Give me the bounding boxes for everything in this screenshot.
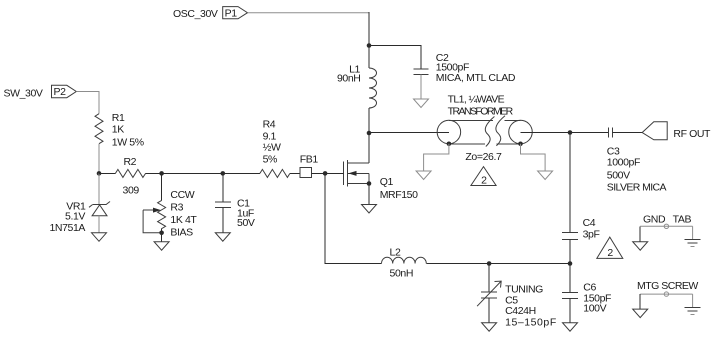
svg-text:5%: 5% bbox=[263, 153, 277, 165]
svg-text:R2: R2 bbox=[124, 156, 137, 168]
svg-text:TRANSFORMER: TRANSFORMER bbox=[448, 105, 514, 117]
capacitor C3 bbox=[609, 128, 613, 138]
svg-text:MRF150: MRF150 bbox=[380, 189, 418, 201]
ground bbox=[154, 242, 169, 251]
svg-text:1N751A: 1N751A bbox=[49, 222, 85, 234]
wire bbox=[222, 173, 224, 202]
label L2 bbox=[390, 247, 414, 280]
label C6 bbox=[583, 282, 611, 315]
svg-text:R3: R3 bbox=[170, 202, 183, 214]
wire bbox=[489, 263, 570, 265]
capacitor C4 bbox=[562, 232, 578, 263]
node bbox=[447, 141, 452, 146]
svg-text:15–150pF: 15–150pF bbox=[505, 317, 557, 329]
transistor Q1 bbox=[344, 160, 369, 187]
svg-text:1000pF: 1000pF bbox=[607, 157, 640, 169]
svg-text:P1: P1 bbox=[225, 7, 238, 19]
svg-text:CCW: CCW bbox=[170, 189, 194, 201]
callout triangle 2 bbox=[597, 237, 623, 259]
node bbox=[568, 130, 573, 135]
node bbox=[367, 43, 372, 48]
wire bbox=[368, 184, 370, 205]
node bbox=[518, 141, 523, 146]
svg-text:1K: 1K bbox=[112, 124, 124, 136]
ground bbox=[563, 323, 578, 332]
label C2 bbox=[436, 52, 516, 84]
label C3 bbox=[607, 146, 667, 194]
ferrite bead FB1 bbox=[300, 168, 312, 178]
node bbox=[97, 171, 102, 176]
node bbox=[367, 181, 372, 186]
zener diode VR1 bbox=[89, 202, 110, 233]
capacitor C1 bbox=[215, 202, 231, 233]
wire bbox=[99, 172, 115, 174]
svg-text:Zo=26.7: Zo=26.7 bbox=[465, 151, 502, 163]
svg-text:Q1: Q1 bbox=[380, 176, 394, 188]
label C1 bbox=[237, 198, 255, 230]
wire bbox=[146, 172, 162, 174]
capacitor C6 bbox=[562, 264, 578, 323]
svg-text:5.1V: 5.1V bbox=[65, 211, 85, 223]
svg-text:100V: 100V bbox=[583, 302, 606, 314]
resistor R4 bbox=[260, 169, 290, 177]
svg-text:R4: R4 bbox=[263, 119, 276, 131]
svg-text:1W 5%: 1W 5% bbox=[112, 137, 144, 149]
ground bbox=[414, 99, 429, 108]
wire bbox=[325, 172, 344, 174]
node bbox=[159, 231, 164, 236]
wire bbox=[290, 172, 300, 174]
ground symbol MTG SCREW bbox=[633, 292, 701, 318]
label R1 bbox=[112, 112, 144, 149]
node bbox=[367, 131, 372, 136]
svg-text:C424H: C424H bbox=[505, 305, 536, 317]
svg-text:309: 309 bbox=[123, 184, 140, 196]
svg-text:SW_30V: SW_30V bbox=[4, 88, 43, 100]
svg-text:90nH: 90nH bbox=[337, 73, 361, 85]
wire bbox=[613, 132, 643, 134]
svg-text:FB1: FB1 bbox=[300, 153, 319, 165]
ground bbox=[92, 233, 107, 242]
wire bbox=[98, 173, 100, 204]
resistor R2 bbox=[115, 169, 145, 177]
node bbox=[159, 171, 164, 176]
resistor R1 bbox=[95, 114, 103, 144]
wire bbox=[570, 132, 609, 134]
ground bbox=[416, 171, 431, 180]
wire bbox=[569, 133, 571, 233]
svg-text:P2: P2 bbox=[53, 86, 66, 98]
svg-text:RF OUT: RF OUT bbox=[673, 128, 711, 140]
wire bbox=[161, 173, 163, 200]
wire bbox=[369, 46, 421, 70]
svg-text:1K 4T: 1K 4T bbox=[170, 214, 197, 226]
svg-text:MTG SCREW: MTG SCREW bbox=[637, 280, 698, 292]
wire bbox=[369, 132, 449, 134]
svg-text:SILVER MICA: SILVER MICA bbox=[607, 181, 667, 193]
ground bbox=[538, 171, 553, 180]
label L1 bbox=[337, 63, 361, 84]
capacitor C2 bbox=[414, 69, 429, 99]
wire bbox=[521, 144, 546, 171]
ground bbox=[482, 323, 497, 332]
wire bbox=[426, 263, 489, 265]
label R3 bbox=[170, 189, 197, 238]
label VR1 bbox=[49, 201, 86, 234]
wire bbox=[98, 144, 100, 174]
wire bbox=[325, 173, 381, 263]
label Q1 bbox=[380, 176, 418, 201]
svg-text:BIAS: BIAS bbox=[170, 227, 193, 239]
svg-text:L2: L2 bbox=[390, 247, 401, 259]
svg-text:50V: 50V bbox=[237, 217, 255, 229]
svg-text:50nH: 50nH bbox=[390, 267, 414, 279]
wire bbox=[312, 172, 326, 174]
svg-text:OSC_30V: OSC_30V bbox=[173, 8, 218, 20]
svg-text:500V: 500V bbox=[607, 169, 630, 181]
svg-text:GND TAB: GND TAB bbox=[643, 214, 692, 226]
callout triangle 2 bbox=[471, 167, 496, 187]
wire bbox=[424, 144, 449, 171]
wire bbox=[223, 172, 260, 174]
wire bbox=[248, 12, 370, 14]
svg-text:½W: ½W bbox=[263, 141, 281, 153]
node bbox=[487, 261, 492, 266]
node bbox=[221, 171, 226, 176]
svg-text:3pF: 3pF bbox=[583, 229, 600, 241]
wire bbox=[76, 92, 99, 114]
connector RF OUT bbox=[642, 122, 667, 140]
ground bbox=[362, 205, 377, 214]
node bbox=[323, 171, 328, 176]
inductor L1 bbox=[368, 46, 370, 69]
label C5 bbox=[505, 283, 557, 328]
ground bbox=[215, 233, 230, 242]
node bbox=[568, 261, 573, 266]
label TL1 bbox=[448, 94, 514, 118]
svg-text:TL1, ¼WAVE: TL1, ¼WAVE bbox=[448, 94, 505, 106]
wire bbox=[368, 133, 370, 163]
transformer TL1 bbox=[437, 116, 532, 147]
svg-text:R1: R1 bbox=[112, 112, 125, 124]
potentiometer R3 bbox=[143, 200, 166, 241]
ground symbol GND TAB bbox=[633, 224, 701, 250]
wire bbox=[162, 172, 223, 174]
svg-text:C4: C4 bbox=[583, 217, 596, 229]
svg-text:MICA, MTL CLAD: MICA, MTL CLAD bbox=[436, 72, 516, 84]
label C4 bbox=[583, 217, 600, 241]
inductor L2 bbox=[382, 257, 427, 263]
connector P1 bbox=[223, 7, 248, 20]
connector P2 bbox=[52, 85, 77, 98]
variable capacitor C5 bbox=[477, 264, 501, 323]
svg-text:2: 2 bbox=[607, 247, 613, 259]
label R4 bbox=[263, 119, 281, 166]
wire bbox=[521, 132, 571, 134]
svg-text:2: 2 bbox=[481, 174, 487, 186]
label R2 bbox=[123, 156, 140, 196]
